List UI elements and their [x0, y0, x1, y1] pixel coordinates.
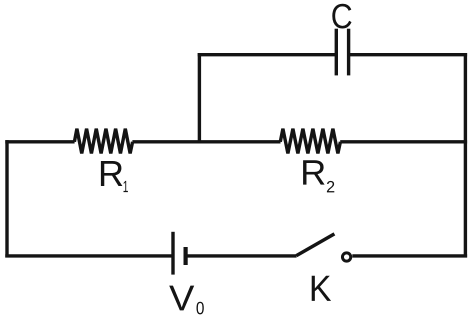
battery V0 long plate (positive): [171, 232, 174, 275]
wire left vertical: [5, 140, 8, 257]
label V0 "V": [169, 286, 194, 311]
wire bottom horizontal from switch to right wire: [352, 254, 467, 257]
wire top-left vertical stub: [198, 53, 201, 143]
resistor R1 zigzag: [74, 129, 132, 154]
label C: [332, 4, 351, 29]
capacitor C right plate: [347, 29, 350, 76]
wire bottom horizontal from battery to switch: [186, 254, 297, 257]
label K: [312, 276, 331, 301]
wire top horizontal from stub to capacitor: [198, 53, 337, 56]
label R2 "R": [303, 160, 325, 184]
resistor R2 zigzag: [280, 129, 340, 154]
wire bottom horizontal from left wire to battery: [5, 254, 173, 257]
wire top horizontal from capacitor to right wire: [349, 53, 468, 56]
wire middle horizontal from left wire to R1: [5, 140, 74, 143]
wire middle horizontal from R2 to right wire: [340, 140, 467, 143]
label V0 subscript 0: [197, 302, 204, 315]
wire middle horizontal from R1 to R2: [132, 140, 280, 143]
label R1 subscript 1: [124, 181, 128, 192]
capacitor C left plate: [335, 29, 338, 76]
switch K lever arm: [296, 234, 334, 256]
switch K contact circle: [342, 253, 350, 261]
label R1 "R": [101, 161, 123, 186]
label R2 subscript 2: [327, 181, 334, 193]
wire right vertical: [464, 53, 467, 258]
battery V0 short plate (negative): [184, 247, 188, 265]
